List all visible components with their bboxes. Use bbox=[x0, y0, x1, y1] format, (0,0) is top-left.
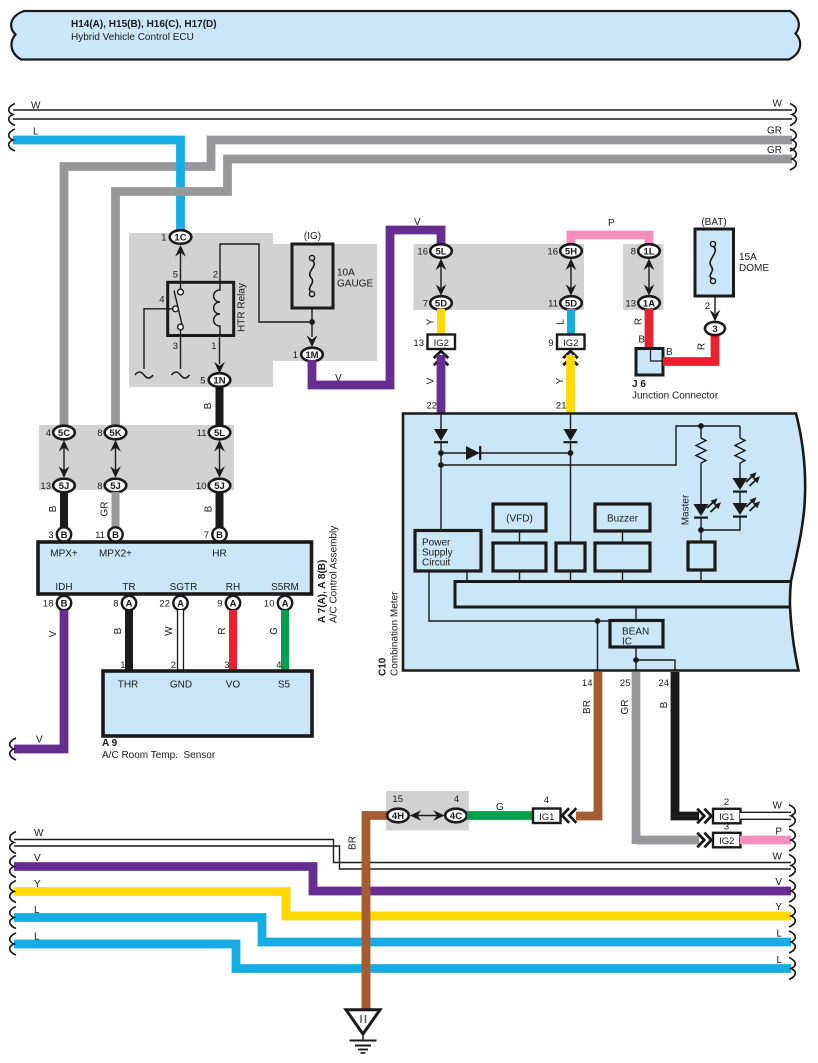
connector 5H bbox=[547, 244, 581, 258]
gray shading behind 5L/5D and 5H/5D connector pairs bbox=[414, 244, 585, 310]
wire W (white) SGTR to sensor pin 2 bbox=[164, 610, 184, 671]
svg-text:V: V bbox=[335, 373, 342, 384]
svg-text:(BAT): (BAT) bbox=[701, 217, 726, 228]
svg-text:G: G bbox=[496, 802, 504, 813]
svg-text:8: 8 bbox=[97, 481, 102, 492]
connector circle A (pin 10) bbox=[264, 596, 292, 610]
svg-text:2: 2 bbox=[724, 797, 729, 808]
connector 5J (pin 13) bbox=[40, 479, 74, 493]
svg-text:8: 8 bbox=[113, 599, 118, 610]
junction arrows 1L-1A bbox=[644, 259, 655, 296]
svg-text:2: 2 bbox=[213, 270, 218, 281]
svg-text:1: 1 bbox=[161, 233, 166, 244]
wire dome fuse to connector 3 bbox=[714, 296, 716, 313]
svg-text:L: L bbox=[776, 929, 782, 940]
shield chevrons right of IG1 bbox=[562, 808, 576, 823]
svg-text:Circuit: Circuit bbox=[422, 558, 451, 569]
svg-text:VO: VO bbox=[226, 680, 241, 691]
svg-text:W: W bbox=[773, 801, 783, 812]
svg-text:15A: 15A bbox=[739, 252, 757, 263]
wire: HTR relay pin5 lead bbox=[180, 252, 182, 282]
svg-text:L: L bbox=[33, 127, 39, 138]
svg-text:HR: HR bbox=[212, 549, 226, 560]
svg-text:IG2: IG2 bbox=[719, 836, 734, 847]
wire B (black) 5J to MPX+ bbox=[48, 492, 64, 528]
svg-text:GR: GR bbox=[100, 502, 111, 517]
connector 1M bbox=[293, 348, 323, 362]
junction arrows 5K-5J bbox=[110, 440, 121, 478]
svg-text:P: P bbox=[608, 218, 615, 229]
svg-text:A 7(A), A 8(B): A 7(A), A 8(B) bbox=[317, 560, 328, 623]
svg-text:A: A bbox=[177, 599, 184, 610]
svg-text:R: R bbox=[217, 627, 228, 634]
svg-text:BR: BR bbox=[348, 836, 359, 850]
node bbox=[438, 462, 444, 468]
svg-text:13: 13 bbox=[625, 299, 636, 310]
svg-text:9: 9 bbox=[548, 338, 553, 349]
svg-text:Buzzer: Buzzer bbox=[607, 514, 639, 525]
svg-text:16: 16 bbox=[417, 247, 428, 258]
connector circle A (pin 9) bbox=[217, 596, 240, 610]
svg-text:B: B bbox=[659, 701, 670, 708]
wire BR (brown) 4H to ground bbox=[348, 816, 390, 1011]
svg-text:Junction Connector: Junction Connector bbox=[632, 391, 719, 402]
svg-text:B: B bbox=[216, 530, 223, 541]
svg-text:V: V bbox=[426, 377, 437, 384]
svg-text:2: 2 bbox=[705, 301, 710, 312]
connector 5J (pin 8) bbox=[97, 479, 126, 493]
svg-text:21: 21 bbox=[556, 401, 567, 412]
meter pin 21 lead + diode bbox=[570, 413, 572, 429]
svg-text:THR: THR bbox=[118, 680, 139, 691]
Buzzer box bbox=[595, 504, 650, 531]
svg-text:RH: RH bbox=[226, 582, 240, 593]
svg-text:5: 5 bbox=[173, 270, 178, 281]
svg-text:5L: 5L bbox=[214, 428, 225, 439]
svg-text:GR: GR bbox=[767, 126, 782, 137]
wire G (green) S5RM to sensor pin 4 bbox=[269, 610, 285, 671]
connector circle B (pin 18) bbox=[43, 596, 71, 610]
wire L (cyan) 5D to IG2 bbox=[556, 309, 572, 334]
LED (Master indicator) bbox=[694, 498, 722, 517]
junction block IG1 (pin 4) bbox=[533, 795, 561, 823]
svg-text:B: B bbox=[113, 627, 124, 634]
junction arrows 5C-5J bbox=[59, 440, 70, 478]
svg-text:22: 22 bbox=[159, 599, 170, 610]
bottom bus wire L (cyan, stepped) bbox=[10, 905, 796, 953]
wire Y (yellow) IG2 to meter pin 21 bbox=[555, 355, 571, 414]
node bbox=[698, 527, 704, 533]
connector circle A (pin 22) bbox=[159, 596, 187, 610]
connector 3 bbox=[705, 322, 725, 335]
wire R (red) 1A to junction connector J6 bbox=[634, 309, 650, 349]
svg-text:5L: 5L bbox=[435, 247, 446, 258]
svg-text:13: 13 bbox=[413, 338, 424, 349]
svg-text:5J: 5J bbox=[214, 481, 225, 492]
bottom bus wire V (purple, stepped) bbox=[10, 853, 796, 902]
wire B (black) TR to sensor pin 1 bbox=[113, 610, 129, 671]
svg-text:1C: 1C bbox=[174, 233, 186, 244]
svg-text:MPX2+: MPX2+ bbox=[99, 549, 132, 560]
svg-text:3: 3 bbox=[48, 530, 53, 541]
wire bus bar to BEAN IC bbox=[635, 607, 637, 620]
svg-text:9: 9 bbox=[217, 599, 222, 610]
buzzer driver box bbox=[595, 543, 650, 571]
svg-text:16: 16 bbox=[547, 247, 558, 258]
svg-text:J 6: J 6 bbox=[632, 379, 646, 390]
wire: fuse to 1M with junction node bbox=[311, 308, 313, 337]
junction block IG2 (pin 3) with chevrons bbox=[697, 822, 740, 848]
bottom bus wire W (white, stepped) bbox=[10, 828, 796, 877]
svg-text:22: 22 bbox=[426, 401, 437, 412]
wire V (purple) IG2 to meter pin 22 bbox=[426, 355, 442, 414]
svg-text:Combination Meter: Combination Meter bbox=[390, 591, 401, 676]
svg-text:W: W bbox=[164, 626, 175, 636]
wire W (top bus, white) bbox=[9, 99, 797, 126]
shield chevrons below IG2 bbox=[434, 351, 449, 365]
svg-text:C10: C10 bbox=[378, 657, 389, 676]
wire GR (gray) meter pin 25 to IG2 bbox=[620, 672, 699, 844]
node bbox=[568, 450, 574, 456]
svg-text:SGTR: SGTR bbox=[170, 582, 198, 593]
junction block IG1 (pin 2) with chevrons bbox=[697, 797, 740, 823]
connector 5C bbox=[46, 426, 75, 440]
junction arrows 5L-5J bbox=[214, 440, 225, 478]
svg-text:W: W bbox=[773, 99, 783, 110]
svg-text:B: B bbox=[112, 530, 119, 541]
svg-text:4H: 4H bbox=[392, 811, 404, 822]
gray shading behind 4H/4C connectors bbox=[386, 791, 469, 831]
svg-text:A/C Control Assembly: A/C Control Assembly bbox=[329, 526, 340, 623]
svg-text:11: 11 bbox=[197, 428, 207, 439]
svg-text:Y: Y bbox=[426, 318, 437, 325]
wire B (black) meter pin 24 to IG1 bbox=[659, 672, 699, 816]
relay area gray shading bbox=[129, 233, 377, 387]
svg-text:14: 14 bbox=[582, 678, 593, 689]
svg-text:L: L bbox=[556, 319, 567, 325]
connector circle B (pin 11) bbox=[95, 527, 123, 541]
svg-text:L: L bbox=[34, 905, 40, 916]
connector 1L bbox=[631, 244, 660, 258]
wire L (cyan) from left edge down to connector 1C bbox=[9, 127, 181, 234]
VFD driver box bbox=[493, 543, 546, 571]
svg-text:IG2: IG2 bbox=[563, 338, 578, 349]
svg-text:A: A bbox=[126, 599, 133, 610]
wire V (purple) IDH to left edge bbox=[10, 610, 64, 760]
connector circle B (pin 3) bbox=[48, 527, 71, 541]
A/C Control Assembly box bbox=[38, 526, 340, 623]
connector 4H bbox=[387, 794, 409, 822]
relay switch contacts bbox=[168, 282, 184, 335]
svg-text:A/C Room Temp. Sensor: A/C Room Temp. Sensor bbox=[102, 750, 216, 761]
junction arrows 5H-5D bbox=[566, 259, 577, 296]
diode pointing right bbox=[466, 446, 480, 460]
svg-text:B: B bbox=[666, 347, 673, 358]
wires BEAN IC to pins 25 / 24 bbox=[635, 647, 637, 671]
svg-text:7: 7 bbox=[423, 299, 428, 310]
LED upper right bbox=[733, 472, 761, 491]
junction block IG2 (pin 13) bbox=[413, 335, 455, 350]
svg-text:P: P bbox=[775, 827, 782, 838]
small box on pin21 line bbox=[556, 543, 585, 571]
svg-text:5: 5 bbox=[200, 376, 205, 387]
svg-text:B: B bbox=[48, 505, 59, 512]
node bbox=[698, 423, 704, 429]
A/C Room Temp. Sensor box bbox=[102, 671, 312, 761]
node bbox=[438, 450, 444, 456]
svg-text:S5: S5 bbox=[278, 680, 291, 691]
wire with series diode between pin22 and pin21 columns bbox=[441, 452, 571, 454]
svg-text:B: B bbox=[61, 599, 68, 610]
svg-text:A: A bbox=[230, 599, 237, 610]
title banner: Hybrid Vehicle Control ECU bbox=[11, 11, 800, 60]
svg-text:S5RM: S5RM bbox=[271, 582, 299, 593]
fuse 15A DOME bbox=[695, 217, 769, 296]
svg-text:W: W bbox=[773, 852, 783, 863]
wire: relay pin2 to fuse output node bbox=[220, 244, 309, 322]
svg-text:Y: Y bbox=[775, 902, 782, 913]
svg-text:4: 4 bbox=[544, 795, 549, 806]
connector 4C bbox=[445, 794, 467, 822]
resistor (left lamp branch) bbox=[700, 426, 702, 438]
svg-text:L: L bbox=[34, 932, 40, 943]
wire power supply to BEAN IC and pin 14 bbox=[429, 571, 610, 621]
svg-text:B: B bbox=[61, 530, 68, 541]
connector 1N bbox=[200, 373, 230, 387]
fuse 10A GAUGE bbox=[292, 231, 373, 308]
svg-text:V: V bbox=[775, 877, 782, 888]
svg-text:Y: Y bbox=[555, 377, 566, 384]
wire R (red) J6 to connector 3 bbox=[663, 336, 715, 362]
svg-text:B: B bbox=[638, 335, 645, 346]
svg-text:10A: 10A bbox=[337, 268, 355, 279]
svg-text:11: 11 bbox=[548, 299, 558, 310]
svg-text:5H: 5H bbox=[565, 247, 577, 258]
svg-text:1N: 1N bbox=[213, 376, 225, 387]
connector circle A (pin 8) bbox=[113, 596, 136, 610]
svg-text:1: 1 bbox=[211, 341, 216, 352]
gray shading behind 1L/1A connector pair bbox=[623, 244, 664, 310]
shield chevrons below IG2 bbox=[563, 351, 578, 365]
svg-text:8: 8 bbox=[631, 247, 636, 258]
svg-text:3: 3 bbox=[712, 324, 717, 335]
junction connector J6 bbox=[632, 349, 719, 402]
svg-text:BR: BR bbox=[582, 700, 593, 714]
svg-text:13: 13 bbox=[40, 481, 51, 492]
svg-text:18: 18 bbox=[43, 599, 54, 610]
svg-text:5J: 5J bbox=[110, 481, 121, 492]
wire Y (yellow) 5D to IG2 bbox=[426, 309, 442, 334]
svg-text:5K: 5K bbox=[109, 428, 121, 439]
svg-text:IDH: IDH bbox=[55, 582, 72, 593]
svg-text:1L: 1L bbox=[643, 247, 654, 258]
svg-text:DOME: DOME bbox=[739, 263, 769, 274]
wire B (black) 1N to 5L bbox=[203, 386, 220, 428]
bottom bus wire L (cyan, stepped, lower) bbox=[10, 932, 796, 980]
wire V (purple) from 1M to connector 5L bbox=[312, 217, 441, 385]
connector 1A bbox=[625, 296, 659, 310]
connector circle B (pin 7) bbox=[204, 527, 227, 541]
node bbox=[595, 618, 601, 624]
svg-text:3: 3 bbox=[724, 822, 729, 833]
relay HTR Relay box bbox=[168, 282, 234, 335]
wire: relay pin3 to break bbox=[180, 336, 182, 370]
svg-text:3: 3 bbox=[173, 341, 178, 352]
svg-text:25: 25 bbox=[620, 678, 631, 689]
wire BR (brown) meter pin 14 to IG1 bbox=[576, 672, 598, 816]
svg-text:4C: 4C bbox=[450, 811, 462, 822]
svg-text:R: R bbox=[697, 343, 708, 350]
svg-text:GND: GND bbox=[170, 680, 192, 691]
svg-text:HTR Relay: HTR Relay bbox=[237, 283, 248, 332]
svg-text:1A: 1A bbox=[643, 299, 655, 310]
svg-text:G: G bbox=[269, 627, 280, 635]
svg-text:V: V bbox=[48, 630, 59, 637]
connector 5D (pin 11) bbox=[548, 296, 582, 310]
connector 5L (pin 11) bbox=[197, 426, 231, 440]
svg-text:Hybrid Vehicle Control ECU: Hybrid Vehicle Control ECU bbox=[71, 32, 194, 43]
svg-text:15: 15 bbox=[392, 794, 403, 805]
svg-text:1: 1 bbox=[293, 350, 298, 361]
wire GR (gray) from right to connector 5C bbox=[64, 126, 796, 429]
svg-text:5J: 5J bbox=[59, 481, 70, 492]
resistor (right lamp branch) bbox=[739, 426, 741, 438]
svg-text:A: A bbox=[282, 599, 289, 610]
svg-text:GR: GR bbox=[620, 700, 631, 715]
Power Supply Circuit box bbox=[415, 531, 481, 572]
svg-text:Y: Y bbox=[34, 879, 41, 890]
svg-text:TR: TR bbox=[122, 582, 135, 593]
svg-text:GAUGE: GAUGE bbox=[337, 279, 373, 290]
svg-text:4: 4 bbox=[454, 794, 459, 805]
bottom bus wire Y (yellow, stepped) bbox=[10, 879, 796, 927]
connector 5K bbox=[97, 426, 126, 440]
svg-text:R: R bbox=[634, 318, 645, 325]
svg-text:5C: 5C bbox=[58, 428, 70, 439]
svg-text:8: 8 bbox=[97, 428, 102, 439]
junction arrows 5L-5D bbox=[436, 259, 447, 296]
svg-text:(IG): (IG) bbox=[304, 231, 321, 242]
svg-text:IG2: IG2 bbox=[434, 338, 449, 349]
svg-text:B: B bbox=[203, 402, 214, 409]
relay coil bbox=[214, 282, 220, 335]
svg-text:H14(A), H15(B), H16(C), H17(D): H14(A), H15(B), H16(C), H17(D) bbox=[71, 19, 217, 30]
svg-text:Master: Master bbox=[681, 494, 692, 525]
junction block IG2 (pin 9) bbox=[548, 335, 584, 350]
svg-text:1M: 1M bbox=[305, 350, 318, 361]
(VFD) box bbox=[493, 504, 546, 531]
svg-text:5D: 5D bbox=[435, 299, 447, 310]
svg-text:10: 10 bbox=[196, 481, 207, 492]
svg-text:5D: 5D bbox=[565, 299, 577, 310]
svg-text:IG1: IG1 bbox=[539, 812, 554, 823]
svg-text:V: V bbox=[36, 735, 43, 746]
svg-text:GR: GR bbox=[767, 145, 782, 156]
connector 5D (pin 7) bbox=[423, 296, 452, 310]
svg-text:4: 4 bbox=[46, 428, 51, 439]
svg-text:W: W bbox=[34, 828, 44, 839]
combination meter C10 body bbox=[378, 414, 806, 677]
wire P (pink) from 5H to 1L bbox=[571, 218, 649, 246]
wire: relay pin4 to break bbox=[144, 309, 168, 369]
svg-text:MPX+: MPX+ bbox=[50, 549, 78, 560]
svg-text:24: 24 bbox=[658, 678, 669, 689]
LED lower right bbox=[733, 497, 761, 516]
svg-text:4: 4 bbox=[159, 295, 164, 306]
wire W (white) IG1 to right edge bbox=[740, 801, 795, 827]
svg-text:W: W bbox=[31, 101, 41, 112]
svg-text:(VFD): (VFD) bbox=[506, 514, 533, 525]
svg-text:11: 11 bbox=[95, 530, 105, 541]
wire from pin22 node to lamp branch bbox=[441, 426, 740, 465]
wire R (red) RH to sensor pin 3 bbox=[217, 610, 233, 671]
svg-text:V: V bbox=[34, 853, 41, 864]
svg-text:A 9: A 9 bbox=[102, 738, 118, 749]
internal bus bar bbox=[455, 582, 791, 608]
connector 5L (column 16) bbox=[417, 244, 451, 258]
gray shading behind 5C/5J connector rows bbox=[39, 425, 234, 490]
svg-text:L: L bbox=[776, 955, 782, 966]
svg-text:IC: IC bbox=[622, 637, 632, 648]
wire P (pink) IG2 to right edge bbox=[740, 827, 795, 852]
svg-text:B: B bbox=[204, 505, 215, 512]
svg-text:V: V bbox=[414, 217, 421, 228]
arrow into connector 1C bbox=[175, 245, 186, 257]
ground symbol bbox=[346, 1010, 380, 1053]
wire GR (gray) 5J to MPX2+ bbox=[100, 492, 116, 528]
wire G (green) 4C to IG1 bbox=[467, 802, 533, 816]
driver box below LEDs bbox=[688, 542, 715, 570]
connector 5J (pin 10) bbox=[196, 479, 230, 493]
BEAN IC box bbox=[610, 621, 663, 648]
junction arrows 4H-4C bbox=[410, 810, 445, 821]
svg-text:10: 10 bbox=[264, 599, 275, 610]
connector 1C bbox=[161, 230, 191, 244]
wire BR (brown) crossing bus to ground bbox=[362, 860, 371, 1010]
svg-text:7: 7 bbox=[204, 530, 209, 541]
wire: relay pin1 to connector 1N bbox=[219, 336, 221, 365]
meter pin 22 lead + diode bbox=[440, 413, 442, 429]
wire B (black) 5J to HR bbox=[204, 492, 220, 528]
wire GR (gray) from right to connector 5K bbox=[116, 145, 797, 428]
